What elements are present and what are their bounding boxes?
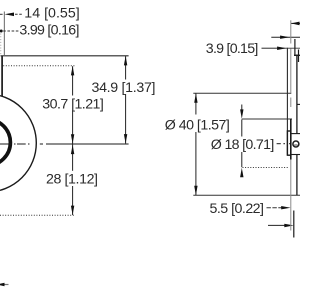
svg-text:28 [1.12]: 28 [1.12] [46,171,98,187]
svg-text:14 [0.55]: 14 [0.55] [24,6,79,22]
svg-text:30.7 [1.21]: 30.7 [1.21] [42,96,104,112]
svg-text:Ø 40 [1.57]: Ø 40 [1.57] [165,118,230,134]
svg-text:3.99 [0.16]: 3.99 [0.16] [19,23,79,39]
svg-text:Ø 18 [0.71]: Ø 18 [0.71] [211,137,274,153]
svg-text:3.9 [0.15]: 3.9 [0.15] [206,41,258,57]
svg-text:34.9 [1.37]: 34.9 [1.37] [92,80,156,96]
svg-text:5.5 [0.22]: 5.5 [0.22] [210,201,265,217]
